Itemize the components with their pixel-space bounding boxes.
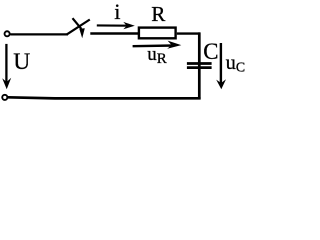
capacitor C bottom plate <box>187 66 212 69</box>
voltage arrow uR head <box>167 41 181 49</box>
svg-text:U: U <box>13 49 30 75</box>
svg-text:C: C <box>236 60 245 75</box>
voltage arrow U head <box>2 78 11 89</box>
wire resistor to corner <box>177 32 200 34</box>
resistor R body <box>139 28 176 39</box>
wire after switch <box>90 32 138 34</box>
voltage arrow uC head <box>216 79 226 89</box>
svg-text:R: R <box>157 51 167 67</box>
voltage arrow uR shaft <box>133 44 174 47</box>
current arrow i shaft <box>97 24 129 26</box>
svg-text:C: C <box>203 39 218 64</box>
svg-text:u: u <box>226 52 236 74</box>
terminal (bottom left) <box>2 95 7 100</box>
current arrow i head <box>123 22 135 29</box>
switch S blade <box>67 20 90 35</box>
capacitor C top plate <box>187 62 212 65</box>
wire top-left segment <box>10 33 68 35</box>
switch closing-motion arrowhead <box>79 28 85 38</box>
wire bottom segment <box>8 97 201 98</box>
svg-text:R: R <box>151 2 166 26</box>
voltage arrow U line (points down) <box>5 44 7 84</box>
svg-text:u: u <box>147 44 157 65</box>
wire right vertical <box>198 32 201 99</box>
voltage arrow uC line (points down) <box>220 43 222 85</box>
switch closing-motion arrow line <box>73 18 82 29</box>
svg-text:i: i <box>114 0 120 24</box>
terminal (top left) <box>5 31 10 36</box>
